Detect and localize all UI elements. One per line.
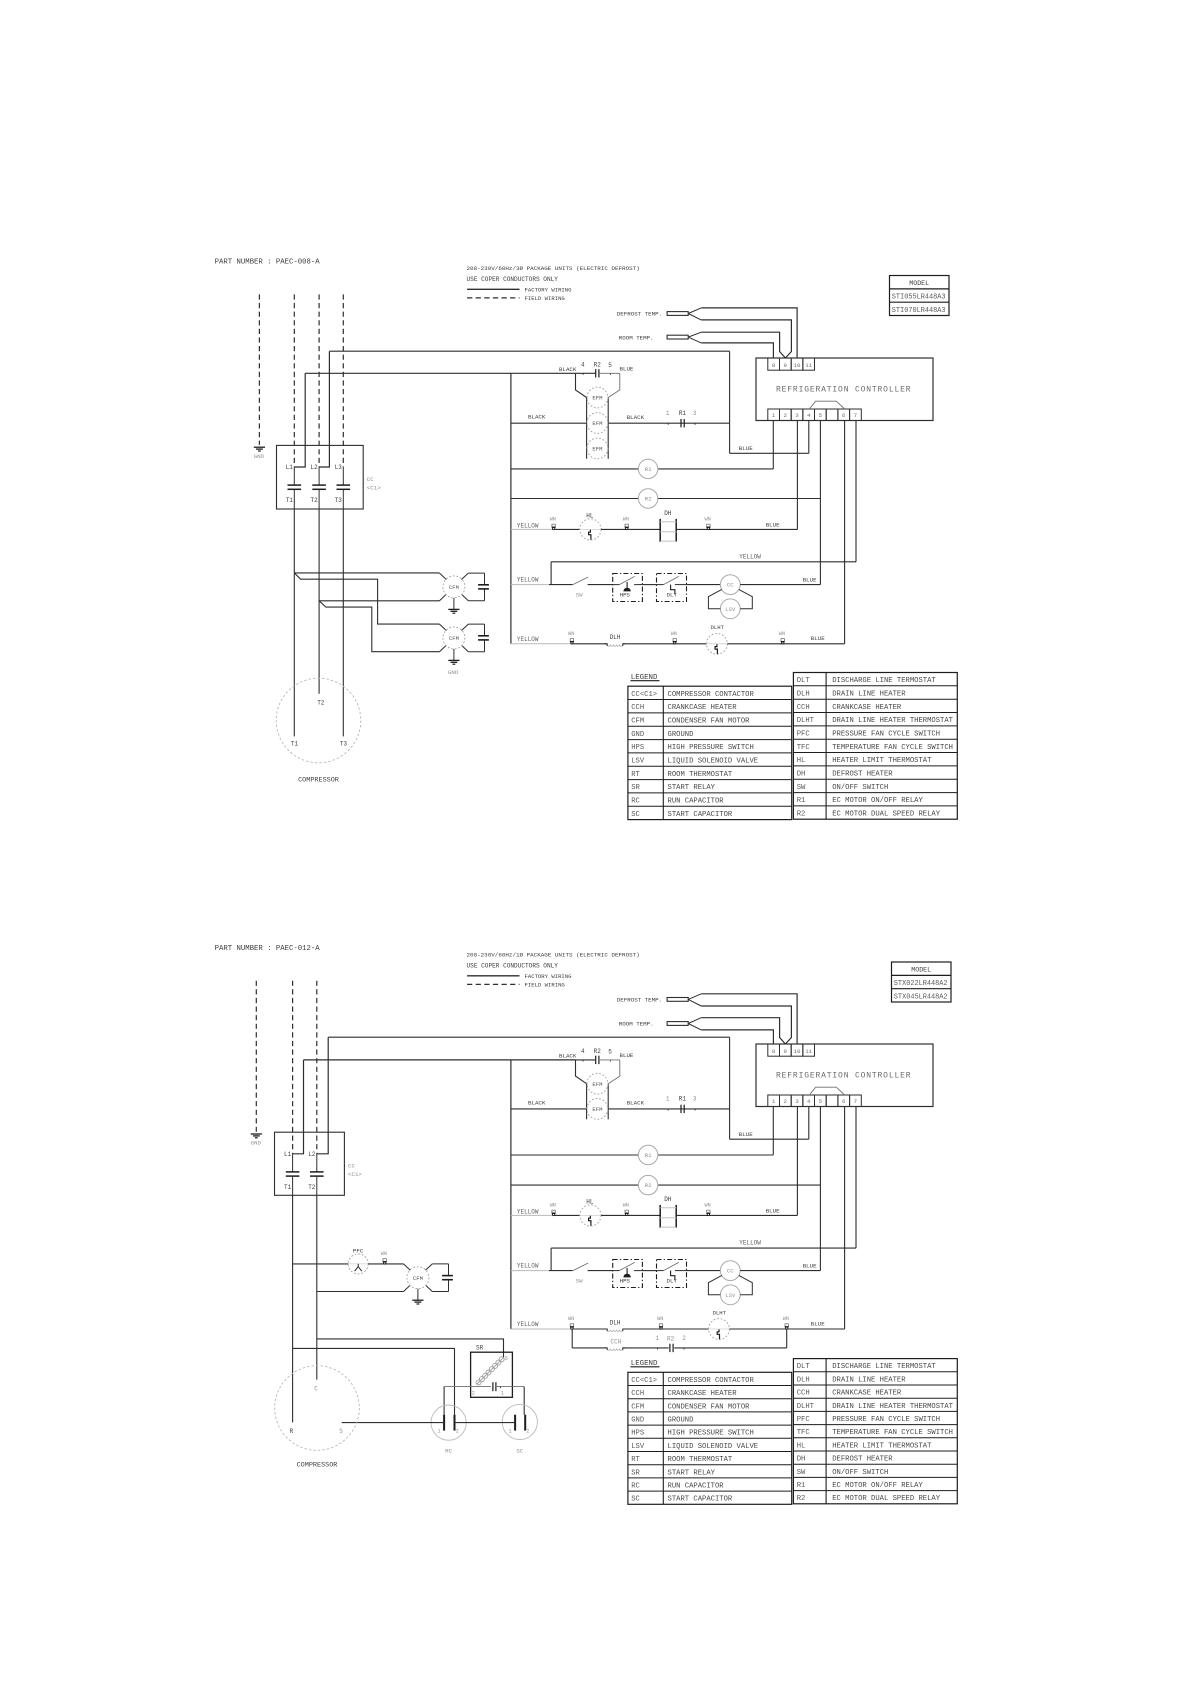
compressor contactor coil CC (bottom diagram) — [720, 1261, 740, 1281]
svg-text:LSV: LSV — [725, 1292, 736, 1299]
wire T1 branch to PFC (bottom diagram) — [293, 1263, 349, 1265]
svg-text:MODEL: MODEL — [911, 967, 931, 974]
svg-text:STI055LR448A3: STI055LR448A3 — [892, 293, 946, 301]
wire EFM right bus (top diagram) — [607, 398, 609, 459]
wire LSV parallel branch right (bottom diagram) — [739, 1275, 753, 1294]
svg-text:WN: WN — [705, 1203, 711, 1209]
svg-text:DLT: DLT — [667, 591, 678, 598]
svg-text:EC MOTOR ON/OFF RELAY: EC MOTOR ON/OFF RELAY — [832, 797, 923, 805]
svg-text:HPS: HPS — [620, 1277, 631, 1284]
svg-text:DLHT: DLHT — [797, 1403, 815, 1411]
svg-text:BLUE: BLUE — [739, 445, 753, 452]
evaporator fan motor EFM2 (top diagram) — [587, 413, 608, 434]
svg-text:DLHT: DLHT — [797, 717, 815, 725]
svg-text:DH: DH — [664, 1196, 672, 1203]
room temperature sensor (top diagram) — [619, 332, 701, 343]
legend table right column (bottom diagram) — [793, 1359, 957, 1504]
copper conductors note (bottom diagram) — [467, 962, 559, 969]
svg-text:7: 7 — [854, 412, 858, 419]
svg-text:YELLOW: YELLOW — [517, 1263, 539, 1270]
discharge line thermostat DLT (bottom diagram) — [657, 1260, 687, 1288]
liquid solenoid valve LSV (top diagram) — [720, 599, 740, 619]
condenser fan motor CFM2 with run capacitor and ground (top diagram) — [440, 624, 489, 676]
wire YELLOW jumper from terminal 7 (bottom diagram) — [551, 1240, 856, 1271]
svg-text:STX022LR448A2: STX022LR448A2 — [894, 980, 948, 988]
svg-text:LSV: LSV — [631, 1443, 645, 1451]
wire L2 feed riser (top diagram) — [319, 351, 329, 467]
voltage spec note (top diagram) — [467, 265, 640, 272]
svg-text:3: 3 — [795, 412, 799, 419]
model table (bottom diagram) — [892, 962, 952, 1002]
svg-text:R2: R2 — [645, 1182, 652, 1189]
defrost temperature sensor (bottom diagram) — [617, 994, 701, 1006]
field wiring line L1 (bottom diagram) — [292, 981, 294, 1154]
svg-text:1: 1 — [437, 1429, 440, 1435]
svg-text:R: R — [290, 1428, 294, 1435]
svg-text:R2: R2 — [797, 811, 806, 819]
wire label YELLOW (DLH row) (bottom diagram) — [511, 1321, 572, 1329]
svg-text:T2: T2 — [311, 497, 319, 504]
legend title (bottom diagram) — [631, 1360, 660, 1368]
relay contact R2 terminals 1-2 (bottom diagram) — [655, 1335, 686, 1352]
wire terminal 7 drop (top diagram) — [855, 421, 857, 562]
svg-text:COMPRESSOR: COMPRESSOR — [297, 1461, 338, 1469]
wire BLUE end of CC row to terminal 5 (top diagram) — [740, 576, 820, 584]
svg-text:LIQUID SOLENOID VALVE: LIQUID SOLENOID VALVE — [668, 758, 759, 766]
svg-text:5: 5 — [819, 412, 823, 419]
wire T2 branch to CFM2 (top diagram) — [319, 601, 439, 652]
wire DLH to WN (bottom diagram) — [623, 1328, 661, 1330]
svg-text:1: 1 — [501, 1391, 504, 1397]
wire nut WN (DLH row left) (bottom diagram) — [568, 1316, 574, 1329]
svg-text:R1: R1 — [679, 1096, 687, 1103]
wire left supply rail (top diagram) — [510, 373, 512, 644]
svg-text:DLH: DLH — [797, 690, 810, 698]
svg-text:DEFROST HEATER: DEFROST HEATER — [832, 1456, 893, 1464]
svg-text:CFM: CFM — [631, 718, 644, 726]
svg-text:ROOM TEMP.: ROOM TEMP. — [619, 334, 654, 341]
wire L1 feed riser (top diagram) — [294, 373, 305, 467]
svg-text:5: 5 — [608, 1048, 612, 1055]
svg-text:DLH: DLH — [610, 634, 621, 641]
svg-text:HIGH PRESSURE SWITCH: HIGH PRESSURE SWITCH — [668, 744, 754, 752]
svg-text:CONDENSER FAN MOTOR: CONDENSER FAN MOTOR — [668, 1403, 751, 1411]
svg-text:5: 5 — [608, 362, 612, 369]
svg-text:CCH: CCH — [797, 1390, 810, 1398]
field wiring line L3 (top diagram) — [342, 294, 344, 467]
svg-text:CFM: CFM — [631, 1403, 644, 1411]
svg-text:WN: WN — [568, 631, 574, 637]
wire DLT to CC (top diagram) — [687, 584, 721, 586]
compressor motor (bottom diagram) — [275, 1366, 360, 1470]
svg-text:EFM: EFM — [592, 395, 602, 402]
relay contact R2 terminals 4-5 (top diagram) — [576, 362, 620, 378]
svg-text:GROUND: GROUND — [668, 731, 694, 739]
wire terminal 3 drop (bottom diagram) — [796, 1107, 798, 1216]
model table (top diagram) — [890, 276, 950, 316]
svg-text:<C1>: <C1> — [348, 1171, 362, 1178]
wire BLACK row from rail to EFM (bottom diagram) — [511, 1099, 587, 1109]
svg-text:BLUE: BLUE — [739, 1131, 753, 1138]
svg-text:CFM: CFM — [413, 1275, 423, 1282]
relay coil R1 (top diagram) — [511, 459, 773, 478]
wire defrost sensor to terminal 10 (bottom diagram) — [701, 994, 797, 1044]
wire CCH to R2 contact (bottom diagram) — [623, 1347, 669, 1349]
svg-text:5: 5 — [505, 1356, 508, 1362]
controller terminal strip 1-7 (bottom diagram) — [768, 1095, 862, 1107]
svg-text:2: 2 — [472, 1391, 475, 1397]
svg-text:S: S — [339, 1428, 343, 1435]
svg-text:T3: T3 — [340, 741, 348, 748]
wire room sensor to terminal 9 (top diagram) — [701, 332, 785, 358]
svg-text:GND: GND — [448, 669, 459, 676]
defrost heater DH (bottom diagram) — [660, 1196, 676, 1228]
contactor terminal T2 (bottom diagram) — [308, 1176, 317, 1195]
contactor terminal T3 (top diagram) — [335, 489, 344, 509]
svg-text:L3: L3 — [335, 464, 343, 471]
wire room sensor to terminal 9 (bottom diagram) — [701, 1018, 785, 1044]
evaporator fan motor EFM3 (top diagram) — [587, 438, 608, 459]
wire WN to HL (bottom diagram) — [554, 1214, 580, 1216]
heater limit thermostat HL (bottom diagram) — [580, 1198, 601, 1226]
voltage spec note (bottom diagram) — [467, 952, 640, 959]
svg-text:ON/OFF SWITCH: ON/OFF SWITCH — [832, 784, 888, 792]
svg-text:GND: GND — [251, 1140, 262, 1147]
wire label BLACK (EFM feed) (bottom diagram) — [559, 1052, 577, 1059]
svg-text:CFM: CFM — [449, 584, 459, 591]
svg-text:T1: T1 — [291, 741, 299, 748]
wire label YELLOW (DLH row) (top diagram) — [511, 636, 572, 644]
svg-text:USE COPER CONDUCTORS ONLY: USE COPER CONDUCTORS ONLY — [467, 962, 559, 969]
relay coil R2 (top diagram) — [511, 489, 821, 508]
svg-text:EC MOTOR DUAL SPEED RELAY: EC MOTOR DUAL SPEED RELAY — [832, 811, 941, 819]
svg-text:L1: L1 — [284, 1151, 292, 1158]
room temperature sensor (bottom diagram) — [619, 1018, 701, 1030]
svg-text:RUN CAPACITOR: RUN CAPACITOR — [668, 1483, 725, 1491]
svg-text:WN: WN — [779, 631, 785, 637]
svg-text:TFC: TFC — [797, 1429, 811, 1437]
heater limit thermostat HL (top diagram) — [580, 512, 601, 540]
wire terminal 6 drop (bottom diagram) — [844, 1107, 846, 1330]
svg-text:3: 3 — [795, 1098, 799, 1105]
wire nut WN (HL row left) (top diagram) — [550, 517, 556, 530]
svg-text:WN: WN — [671, 631, 677, 637]
svg-text:DEFROST TEMP.: DEFROST TEMP. — [617, 311, 662, 318]
field wiring line L2 (bottom diagram) — [316, 981, 318, 1154]
svg-text:WN: WN — [381, 1251, 387, 1257]
wire DLHT to WN (bottom diagram) — [729, 1328, 786, 1330]
wire label BLUE (EFM R2) (bottom diagram) — [620, 1052, 634, 1059]
relay contact R1 terminals 1-3 (bottom diagram) — [666, 1096, 697, 1114]
wire L1 feed riser (bottom diagram) — [293, 1060, 304, 1154]
legend title (top diagram) — [631, 674, 660, 682]
wire EFM left bus (top diagram) — [586, 398, 588, 459]
wire compressor S to RC (bottom diagram) — [342, 1422, 444, 1424]
wire left supply rail (bottom diagram) — [510, 1060, 512, 1329]
wire DH to WN (bottom diagram) — [676, 1214, 708, 1216]
wire T1 to compressor R (bottom diagram) — [292, 1195, 294, 1422]
svg-text:GND: GND — [254, 453, 265, 460]
svg-text:DRAIN LINE HEATER THERMOSTAT: DRAIN LINE HEATER THERMOSTAT — [832, 1403, 953, 1411]
svg-text:DEFROST TEMP.: DEFROST TEMP. — [617, 997, 662, 1004]
svg-text:WN: WN — [550, 517, 556, 523]
svg-text:RC: RC — [631, 798, 640, 806]
svg-text:11: 11 — [805, 362, 812, 369]
wire terminal 6 drop (top diagram) — [844, 421, 846, 644]
svg-text:EC MOTOR ON/OFF RELAY: EC MOTOR ON/OFF RELAY — [832, 1482, 923, 1490]
svg-text:EC MOTOR DUAL SPEED RELAY: EC MOTOR DUAL SPEED RELAY — [832, 1495, 941, 1503]
drain line heater thermostat DLHT (top diagram) — [707, 624, 728, 654]
svg-text:HEATER LIMIT THERMOSTAT: HEATER LIMIT THERMOSTAT — [832, 757, 932, 765]
wire WN to CFM (bottom diagram) — [385, 1263, 404, 1265]
wire WN to DLH (top diagram) — [572, 643, 607, 645]
svg-text:HPS: HPS — [631, 744, 644, 752]
wire BLUE end of DLH row to terminal 6 (top diagram) — [783, 635, 845, 644]
svg-text:CC: CC — [367, 476, 374, 483]
svg-text:2: 2 — [784, 1098, 788, 1105]
svg-text:GND: GND — [631, 731, 644, 739]
svg-text:DLHT: DLHT — [713, 1309, 727, 1316]
svg-text:WN: WN — [623, 1203, 629, 1209]
legend table left column (top diagram) — [628, 686, 792, 819]
svg-text:START RELAY: START RELAY — [668, 1469, 716, 1477]
wire SR terminal 1 to start capacitor (bottom diagram) — [523, 1387, 525, 1415]
wire WN to DH (bottom diagram) — [627, 1214, 661, 1216]
wire terminal 4 drop (bottom diagram) — [808, 1107, 810, 1140]
svg-text:TEMPERATURE FAN CYCLE SWITCH: TEMPERATURE FAN CYCLE SWITCH — [832, 744, 953, 752]
svg-text:R1: R1 — [645, 1152, 652, 1159]
svg-text:YELLOW: YELLOW — [517, 522, 539, 529]
svg-text:C: C — [314, 1386, 318, 1393]
wire nut WN (HL row mid) (top diagram) — [623, 517, 629, 530]
wire BLUE link to terminal 4 (bottom diagram) — [730, 1131, 809, 1139]
start capacitor SC (bottom diagram) — [502, 1404, 537, 1454]
svg-text:4: 4 — [581, 362, 585, 369]
svg-text:<C1>: <C1> — [367, 484, 381, 491]
wire LSV parallel branch left (bottom diagram) — [708, 1275, 721, 1294]
compressor contactor CC<C1> box (bottom diagram) — [275, 1132, 345, 1195]
liquid solenoid valve LSV (bottom diagram) — [720, 1285, 740, 1305]
wire L2 phase feed to controller side (bottom diagram) — [328, 1036, 729, 1038]
svg-text:8: 8 — [772, 362, 776, 369]
wire riser black row to L2 feed (top diagram) — [729, 351, 731, 453]
wire terminal 7 drop (bottom diagram) — [855, 1107, 857, 1249]
wire R2 contact to branch right (bottom diagram) — [674, 1347, 786, 1349]
wire EFM right funnel (top diagram) — [608, 373, 620, 397]
wire T2 branch to start relay (bottom diagram) — [317, 1339, 504, 1358]
wire CCH branch to coil (bottom diagram) — [572, 1347, 607, 1349]
factory wiring legend (bottom diagram) — [467, 973, 572, 980]
svg-text:WN: WN — [550, 1203, 556, 1209]
wire BLUE link to terminal 4 (top diagram) — [730, 445, 809, 453]
copper conductors note (top diagram) — [467, 276, 559, 283]
svg-text:10: 10 — [794, 1048, 801, 1055]
svg-text:STI070LR448A3: STI070LR448A3 — [892, 307, 946, 315]
defrost heater DH (top diagram) — [660, 510, 676, 542]
svg-text:1: 1 — [508, 1429, 511, 1435]
wire BLACK row from EFM to controller loop (top diagram) — [608, 414, 729, 423]
wire nut WN (DLH row mid) (bottom diagram) — [657, 1316, 663, 1329]
svg-text:DISCHARGE LINE TERMOSTAT: DISCHARGE LINE TERMOSTAT — [832, 677, 936, 685]
wire WN to HL (top diagram) — [554, 528, 580, 530]
wire L1 phase feed to fan circuit (top diagram) — [305, 372, 575, 374]
svg-text:USE COPER CONDUCTORS ONLY: USE COPER CONDUCTORS ONLY — [467, 276, 559, 283]
svg-text:PFC: PFC — [797, 731, 811, 739]
svg-text:L2: L2 — [311, 464, 319, 471]
evaporator fan motor EFM1 (top diagram) — [587, 387, 608, 408]
svg-text:1: 1 — [666, 1096, 670, 1103]
svg-text:LSV: LSV — [631, 758, 645, 766]
svg-text:CRANKCASE HEATER: CRANKCASE HEATER — [832, 704, 902, 712]
svg-text:10: 10 — [794, 362, 801, 369]
wire L1 phase feed to fan circuit (bottom diagram) — [304, 1059, 576, 1061]
svg-text:REFRIGERATION CONTROLLER: REFRIGERATION CONTROLLER — [776, 1071, 911, 1080]
svg-text:BLUE: BLUE — [811, 635, 825, 642]
svg-text:FIELD WIRING: FIELD WIRING — [525, 295, 566, 302]
svg-text:RC: RC — [445, 1448, 452, 1455]
svg-text:208-230V/60Hz/3Ø PACKAGE UNITS: 208-230V/60Hz/3Ø PACKAGE UNITS (ELECTRIC… — [467, 265, 640, 272]
svg-text:HL: HL — [797, 757, 806, 765]
svg-text:R1: R1 — [645, 466, 652, 473]
svg-text:SR: SR — [631, 1469, 640, 1477]
svg-text:2: 2 — [682, 1335, 686, 1342]
svg-text:9: 9 — [784, 1048, 788, 1055]
field wiring legend (top diagram) — [467, 295, 565, 302]
svg-text:SW: SW — [576, 1277, 583, 1284]
svg-text:LIQUID SOLENOID VALVE: LIQUID SOLENOID VALVE — [668, 1443, 759, 1451]
svg-text:CRANKCASE HEATER: CRANKCASE HEATER — [668, 1390, 738, 1398]
high pressure switch HPS (bottom diagram) — [613, 1260, 643, 1288]
svg-text:REFRIGERATION CONTROLLER: REFRIGERATION CONTROLLER — [776, 385, 911, 394]
svg-text:HL: HL — [586, 1198, 594, 1205]
field wiring legend (bottom diagram) — [467, 981, 565, 988]
contactor main contact pole 3 (top diagram) — [337, 485, 351, 489]
wire label YELLOW (HL row) (bottom diagram) — [511, 1208, 554, 1215]
legend table left column (bottom diagram) — [628, 1372, 792, 1504]
wire CCH branch left drop (bottom diagram) — [571, 1329, 573, 1348]
svg-text:SR: SR — [631, 784, 640, 792]
svg-text:CC<C1>: CC<C1> — [631, 691, 657, 699]
svg-text:4: 4 — [581, 1048, 585, 1055]
wire nut WN (DLH row right) (top diagram) — [779, 631, 785, 644]
svg-text:EFM: EFM — [592, 1106, 602, 1113]
controller jumper terminal 4 to 6 (bottom diagram) — [809, 1087, 844, 1095]
svg-text:T2: T2 — [317, 699, 325, 706]
switch SW on/off (bottom diagram) — [549, 1263, 588, 1284]
svg-text:DRAIN LINE HEATER: DRAIN LINE HEATER — [832, 1376, 906, 1384]
svg-text:YELLOW: YELLOW — [517, 577, 539, 584]
wire EFM right bus (bottom diagram) — [607, 1084, 609, 1120]
svg-text:1: 1 — [772, 412, 776, 419]
svg-text:WN: WN — [657, 1316, 663, 1322]
wire WN to DLHT (bottom diagram) — [661, 1328, 709, 1330]
svg-text:CCH: CCH — [611, 1338, 622, 1345]
wire nut WN (PFC row) (bottom diagram) — [381, 1251, 387, 1264]
svg-text:MODEL: MODEL — [909, 280, 929, 287]
svg-text:HPS: HPS — [631, 1430, 644, 1438]
svg-text:TEMPERATURE FAN CYCLE SWITCH: TEMPERATURE FAN CYCLE SWITCH — [832, 1429, 953, 1437]
part number label (top diagram) — [215, 258, 321, 266]
svg-text:1: 1 — [666, 410, 670, 417]
pressure fan cycle switch PFC (bottom diagram) — [348, 1247, 368, 1274]
svg-text:BLUE: BLUE — [620, 366, 634, 373]
wire label BLUE (EFM R2) (top diagram) — [620, 366, 634, 373]
svg-text:COMPRESSOR CONTACTOR: COMPRESSOR CONTACTOR — [668, 691, 755, 699]
svg-text:YELLOW: YELLOW — [739, 1240, 761, 1247]
wire SW to HPS (bottom diagram) — [588, 1270, 613, 1272]
svg-text:PRESSURE FAN CYCLE SWITCH: PRESSURE FAN CYCLE SWITCH — [832, 731, 940, 739]
svg-text:1: 1 — [655, 1335, 659, 1342]
wire nut WN (DLH row mid) (top diagram) — [671, 631, 677, 644]
wire T1 branch to CFM1 (top diagram) — [294, 573, 439, 624]
svg-text:SC: SC — [516, 1448, 523, 1455]
wire label YELLOW (HL row) (top diagram) — [511, 522, 554, 529]
part number label (bottom diagram) — [215, 945, 321, 953]
svg-text:7: 7 — [854, 1098, 858, 1105]
svg-text:HPS: HPS — [620, 591, 631, 598]
svg-text:WN: WN — [705, 517, 711, 523]
ground symbol GND (bottom diagram) — [251, 1134, 262, 1147]
svg-text:R2: R2 — [594, 1048, 602, 1055]
svg-text:DH: DH — [664, 510, 672, 517]
svg-text:DLT: DLT — [797, 1363, 811, 1371]
drain line heater thermostat DLHT (bottom diagram) — [709, 1309, 730, 1339]
wire HPS to DLT (top diagram) — [642, 584, 656, 586]
svg-text:3: 3 — [693, 1096, 697, 1103]
svg-text:1: 1 — [772, 1098, 776, 1105]
svg-text:9: 9 — [784, 362, 788, 369]
wire terminal 5 drop (top diagram) — [819, 421, 821, 585]
svg-text:RC: RC — [631, 1483, 640, 1491]
wire BLACK row from rail to EFM (top diagram) — [511, 414, 587, 424]
svg-text:DLH: DLH — [610, 1319, 621, 1326]
svg-text:COMPRESSOR CONTACTOR: COMPRESSOR CONTACTOR — [668, 1377, 755, 1385]
svg-text:BLACK: BLACK — [627, 414, 645, 421]
contactor terminal L3 (top diagram) — [335, 464, 344, 485]
wire EFM right funnel (bottom diagram) — [608, 1060, 620, 1084]
svg-text:4: 4 — [807, 1098, 811, 1105]
wire EFM left funnel (top diagram) — [576, 373, 587, 397]
wire nut WN (HL row right) (bottom diagram) — [705, 1203, 711, 1216]
svg-text:CCH: CCH — [631, 704, 644, 712]
wire L2 phase feed to controller side (top diagram) — [329, 350, 729, 352]
svg-text:CRANKCASE HEATER: CRANKCASE HEATER — [668, 704, 738, 712]
svg-text:DH: DH — [797, 771, 806, 779]
wire room sensor to terminal 8 (bottom diagram) — [701, 1030, 773, 1044]
field wiring line L1 (top diagram) — [293, 294, 295, 467]
svg-text:ROOM TEMP.: ROOM TEMP. — [619, 1021, 654, 1028]
svg-text:PART NUMBER : PAEC-008-A: PART NUMBER : PAEC-008-A — [215, 258, 321, 266]
svg-text:CCH: CCH — [631, 1390, 644, 1398]
svg-text:SW: SW — [576, 591, 583, 598]
wire nut WN (HL row mid) (bottom diagram) — [623, 1203, 629, 1216]
wire CCH branch right riser (bottom diagram) — [786, 1329, 788, 1348]
svg-text:EFM: EFM — [592, 1081, 602, 1088]
controller terminal strip 1-7 (top diagram) — [768, 409, 862, 421]
wire defrost sensor to terminal 9 (bottom diagram) — [701, 1006, 791, 1044]
wire T2 branch to CFM bottom (bottom diagram) — [317, 1291, 404, 1293]
wire nut WN (HL row left) (bottom diagram) — [550, 1203, 556, 1216]
svg-text:START RELAY: START RELAY — [668, 784, 716, 792]
svg-text:RT: RT — [631, 771, 640, 779]
controller terminal strip 8-11 (bottom diagram) — [768, 1044, 815, 1056]
svg-text:R2: R2 — [797, 1495, 806, 1503]
svg-text:BLACK: BLACK — [559, 1052, 577, 1059]
svg-text:BLUE: BLUE — [803, 1262, 817, 1269]
svg-text:PART NUMBER : PAEC-012-A: PART NUMBER : PAEC-012-A — [215, 945, 321, 953]
svg-text:6: 6 — [842, 412, 846, 419]
switch SW on/off (top diagram) — [549, 577, 588, 598]
